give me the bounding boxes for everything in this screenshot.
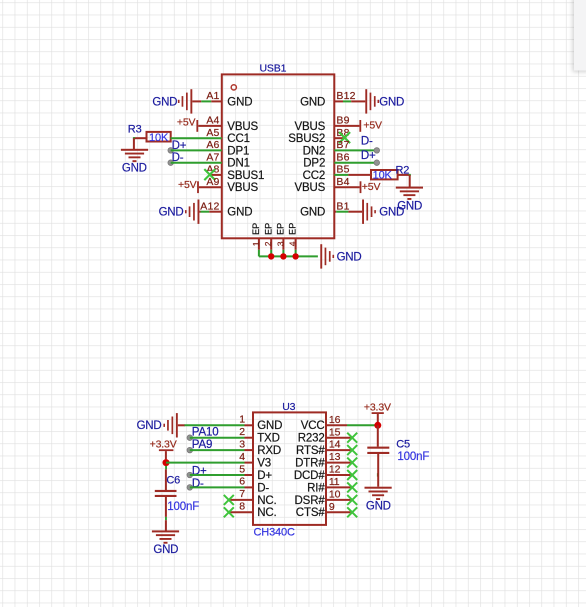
ground xyxy=(178,89,201,113)
pin 10 xyxy=(295,489,351,507)
svg-text:GND: GND xyxy=(379,96,404,108)
svg-text:RXD: RXD xyxy=(257,445,281,457)
svg-text:5: 5 xyxy=(239,463,245,475)
value 100nF xyxy=(397,451,429,463)
svg-text:B4: B4 xyxy=(336,176,349,188)
value CH340C xyxy=(254,527,295,539)
pin 16 xyxy=(301,414,347,432)
no-connect 9 xyxy=(347,507,357,517)
ground xyxy=(152,530,179,543)
svg-text:SBUS1: SBUS1 xyxy=(227,170,264,182)
value 100nF xyxy=(167,501,199,513)
wire xyxy=(165,497,167,531)
pin 5 xyxy=(239,463,272,482)
refdes R3 xyxy=(128,124,142,136)
resistor R3 xyxy=(134,132,171,144)
pin 2 xyxy=(239,426,280,445)
svg-text:VBUS: VBUS xyxy=(227,182,258,194)
pin B7 xyxy=(303,139,350,157)
pin A4 xyxy=(198,115,258,133)
svg-text:B6: B6 xyxy=(336,151,349,163)
wire xyxy=(270,250,272,257)
svg-text:GND: GND xyxy=(227,96,252,108)
svg-text:10K: 10K xyxy=(373,169,393,181)
svg-text:TXD: TXD xyxy=(257,433,280,445)
svg-text:GND: GND xyxy=(300,207,325,219)
pin A6 xyxy=(206,139,249,157)
svg-text:CC1: CC1 xyxy=(227,133,250,145)
svg-text:RTS#: RTS# xyxy=(296,445,325,457)
pin 9 xyxy=(296,501,351,519)
pin 6 xyxy=(239,476,269,495)
pin A1 xyxy=(206,90,252,108)
svg-text:4: 4 xyxy=(288,241,298,246)
wire xyxy=(187,485,245,491)
svg-text:GND: GND xyxy=(122,162,147,174)
net label D- xyxy=(172,152,184,164)
svg-text:CH340C: CH340C xyxy=(254,527,295,539)
svg-text:9: 9 xyxy=(329,501,335,513)
svg-text:R2: R2 xyxy=(396,164,410,176)
svg-text:RI#: RI# xyxy=(307,482,325,494)
pin B12 xyxy=(300,90,356,108)
svg-text:R232: R232 xyxy=(298,433,325,445)
no-connect 12 xyxy=(347,470,357,480)
svg-text:EP: EP xyxy=(263,223,273,235)
net label GND xyxy=(159,207,184,219)
svg-text:11: 11 xyxy=(329,476,340,488)
pin 7 xyxy=(229,488,277,507)
net label D- xyxy=(192,478,204,490)
wire xyxy=(185,424,245,426)
svg-text:B1: B1 xyxy=(336,200,349,212)
svg-text:A5: A5 xyxy=(206,127,219,139)
ground xyxy=(365,487,392,500)
svg-text:10K: 10K xyxy=(149,132,169,144)
net label GND xyxy=(366,501,391,513)
net label GND xyxy=(122,162,147,174)
svg-text:4: 4 xyxy=(239,451,245,463)
wire xyxy=(168,148,222,154)
junction xyxy=(280,253,286,259)
pin EP 4 xyxy=(288,223,298,250)
refdes R2 xyxy=(396,164,410,176)
wire xyxy=(168,160,222,166)
junction xyxy=(268,253,274,259)
wire xyxy=(347,424,378,426)
ground xyxy=(351,89,379,113)
svg-text:GND: GND xyxy=(227,207,252,219)
net label GND xyxy=(397,200,422,212)
svg-text:EP: EP xyxy=(251,223,261,235)
no-connect A8 xyxy=(204,169,215,180)
svg-text:C6: C6 xyxy=(166,474,180,486)
svg-text:U3: U3 xyxy=(282,401,295,413)
svg-text:D+: D+ xyxy=(361,150,376,162)
power +5V xyxy=(178,179,199,193)
net label GND xyxy=(379,96,404,108)
svg-text:3: 3 xyxy=(239,438,245,450)
wire xyxy=(409,174,411,188)
svg-text:DN1: DN1 xyxy=(227,158,250,170)
no-connect 8 xyxy=(224,507,234,517)
svg-text:DTR#: DTR# xyxy=(295,458,325,470)
capacitor C6 xyxy=(155,490,177,497)
svg-text:A7: A7 xyxy=(206,151,219,163)
pin EP 2 xyxy=(263,223,273,250)
svg-text:+5V: +5V xyxy=(362,181,381,193)
svg-text:USB1: USB1 xyxy=(260,63,287,75)
net label GND xyxy=(153,544,178,556)
wire xyxy=(201,211,210,213)
wire xyxy=(187,435,245,441)
pin 4 xyxy=(239,451,271,470)
svg-text:D-: D- xyxy=(361,135,373,147)
wire xyxy=(377,425,379,476)
svg-text:DCD#: DCD# xyxy=(294,470,325,482)
svg-text:GND: GND xyxy=(300,96,325,108)
svg-text:GND: GND xyxy=(153,544,178,556)
svg-text:DP1: DP1 xyxy=(227,145,249,157)
svg-text:A1: A1 xyxy=(206,90,219,102)
power +5V xyxy=(359,120,382,132)
wire xyxy=(187,472,245,478)
power +3.3V xyxy=(150,439,177,460)
svg-text:B5: B5 xyxy=(336,164,349,176)
pin EP 3 xyxy=(275,223,285,250)
net label D+ xyxy=(172,140,187,152)
svg-text:A12: A12 xyxy=(200,200,219,212)
wire xyxy=(334,160,379,166)
svg-text:A4: A4 xyxy=(206,115,219,127)
wire xyxy=(165,469,167,490)
pin B6 xyxy=(303,151,349,169)
ground xyxy=(348,200,376,224)
svg-text:+5V: +5V xyxy=(363,120,382,132)
svg-text:+3.3V: +3.3V xyxy=(150,439,177,451)
svg-text:VBUS: VBUS xyxy=(294,121,325,133)
UI panel top-right xyxy=(574,0,586,71)
svg-text:GND: GND xyxy=(366,501,391,513)
pin B9 xyxy=(294,115,359,133)
no-connect 10 xyxy=(347,495,357,505)
no-connect 13 xyxy=(347,458,357,468)
svg-text:B12: B12 xyxy=(336,90,355,102)
svg-text:D-: D- xyxy=(257,482,269,494)
wire xyxy=(334,148,379,154)
pin B8 xyxy=(288,127,349,145)
resistor R2 xyxy=(348,169,409,181)
svg-text:+5V: +5V xyxy=(178,179,197,191)
svg-text:13: 13 xyxy=(329,451,341,463)
svg-text:D+: D+ xyxy=(257,470,272,482)
net label D- xyxy=(361,135,373,147)
refdes USB1 xyxy=(260,63,287,75)
svg-text:CTS#: CTS# xyxy=(296,507,326,519)
svg-text:10: 10 xyxy=(329,489,341,501)
svg-text:NC.: NC. xyxy=(257,507,276,519)
svg-text:100nF: 100nF xyxy=(397,451,429,463)
svg-text:B7: B7 xyxy=(336,139,349,151)
svg-text:14: 14 xyxy=(329,439,341,451)
pin 15 xyxy=(298,426,351,444)
connector USB1 body xyxy=(222,74,334,238)
svg-text:DP2: DP2 xyxy=(303,158,325,170)
power +5V xyxy=(360,181,381,193)
svg-text:R3: R3 xyxy=(128,124,142,136)
refdes C5 xyxy=(396,438,410,450)
pin A7 xyxy=(206,151,250,169)
pin 11 xyxy=(307,476,350,494)
junction xyxy=(163,459,170,466)
pin A8 xyxy=(206,164,264,182)
net label PA10 xyxy=(192,427,219,439)
svg-text:CC2: CC2 xyxy=(303,170,326,182)
ground xyxy=(396,187,423,200)
svg-text:16: 16 xyxy=(329,414,341,426)
svg-text:2: 2 xyxy=(239,426,245,438)
svg-text:1: 1 xyxy=(239,414,245,426)
svg-text:3: 3 xyxy=(275,241,285,246)
pin A5 xyxy=(206,127,250,145)
wire xyxy=(171,137,222,139)
svg-text:GND: GND xyxy=(159,207,184,219)
no-connect 15 xyxy=(347,433,357,443)
pin 13 xyxy=(295,451,350,469)
pin 14 xyxy=(296,439,350,457)
pin A12 xyxy=(200,200,252,218)
net label GND xyxy=(137,420,162,432)
svg-text:EP: EP xyxy=(276,223,286,235)
svg-text:C5: C5 xyxy=(396,438,410,450)
ground xyxy=(185,200,201,224)
svg-text:NC.: NC. xyxy=(257,495,276,507)
wire xyxy=(201,100,211,102)
svg-text:2: 2 xyxy=(263,241,273,246)
capacitor C5 xyxy=(367,447,389,454)
pin B4 xyxy=(294,176,359,194)
wire xyxy=(133,137,135,150)
svg-text:+5V: +5V xyxy=(177,116,196,128)
net label GND xyxy=(152,96,177,108)
svg-text:VBUS: VBUS xyxy=(294,182,325,194)
ground xyxy=(320,244,334,268)
pin B1 xyxy=(300,200,350,218)
wire xyxy=(336,211,348,213)
wire xyxy=(258,250,260,257)
no-connect 7 xyxy=(224,495,234,505)
svg-text:VBUS: VBUS xyxy=(227,121,258,133)
svg-text:7: 7 xyxy=(239,488,245,500)
power +3.3V xyxy=(364,402,391,422)
svg-text:GND: GND xyxy=(152,96,177,108)
svg-text:VCC: VCC xyxy=(301,420,325,432)
wire xyxy=(259,255,318,257)
svg-text:B9: B9 xyxy=(336,115,349,127)
svg-text:6: 6 xyxy=(239,476,245,488)
ground xyxy=(163,413,185,437)
svg-text:+3.3V: +3.3V xyxy=(364,402,391,414)
no-connect B8 xyxy=(339,132,350,143)
pin 3 xyxy=(239,438,281,457)
pin 8 xyxy=(229,501,277,520)
svg-text:GND: GND xyxy=(137,420,162,432)
wire xyxy=(165,466,167,469)
svg-text:A9: A9 xyxy=(206,176,219,188)
svg-text:DN2: DN2 xyxy=(303,145,326,157)
wire xyxy=(343,100,351,102)
power +5V xyxy=(177,116,198,131)
pin EP 1 xyxy=(251,223,261,250)
pin A9 xyxy=(199,176,259,194)
IC U3 body xyxy=(253,412,326,525)
svg-text:EP: EP xyxy=(288,223,298,235)
svg-text:100nF: 100nF xyxy=(167,501,199,513)
svg-text:GND: GND xyxy=(379,207,404,219)
wire xyxy=(166,462,245,464)
wire xyxy=(282,250,284,257)
wire xyxy=(187,447,245,453)
net label PA9 xyxy=(192,439,212,451)
svg-text:8: 8 xyxy=(239,501,245,513)
svg-text:V3: V3 xyxy=(257,458,271,470)
pin 1 xyxy=(239,414,282,433)
pin 12 xyxy=(294,464,351,482)
wire xyxy=(377,454,379,487)
refdes U3 xyxy=(282,401,295,413)
svg-text:A6: A6 xyxy=(206,139,219,151)
net label GND xyxy=(379,207,404,219)
no-connect 14 xyxy=(347,445,357,455)
svg-text:1: 1 xyxy=(251,241,261,246)
svg-text:15: 15 xyxy=(329,426,341,438)
svg-text:GND: GND xyxy=(257,420,282,432)
net label GND xyxy=(337,252,362,264)
net label D+ xyxy=(361,150,376,162)
svg-text:12: 12 xyxy=(329,464,341,476)
pin B5 xyxy=(303,164,350,182)
wire xyxy=(334,174,348,176)
refdes C6 xyxy=(166,474,180,486)
junction xyxy=(374,422,381,429)
wire xyxy=(295,250,297,257)
svg-text:DSR#: DSR# xyxy=(295,495,326,507)
ground xyxy=(121,149,148,162)
svg-text:SBUS2: SBUS2 xyxy=(288,133,325,145)
svg-text:GND: GND xyxy=(337,252,362,264)
net label D+ xyxy=(192,465,207,477)
junction xyxy=(292,253,298,259)
no-connect 11 xyxy=(347,482,357,492)
